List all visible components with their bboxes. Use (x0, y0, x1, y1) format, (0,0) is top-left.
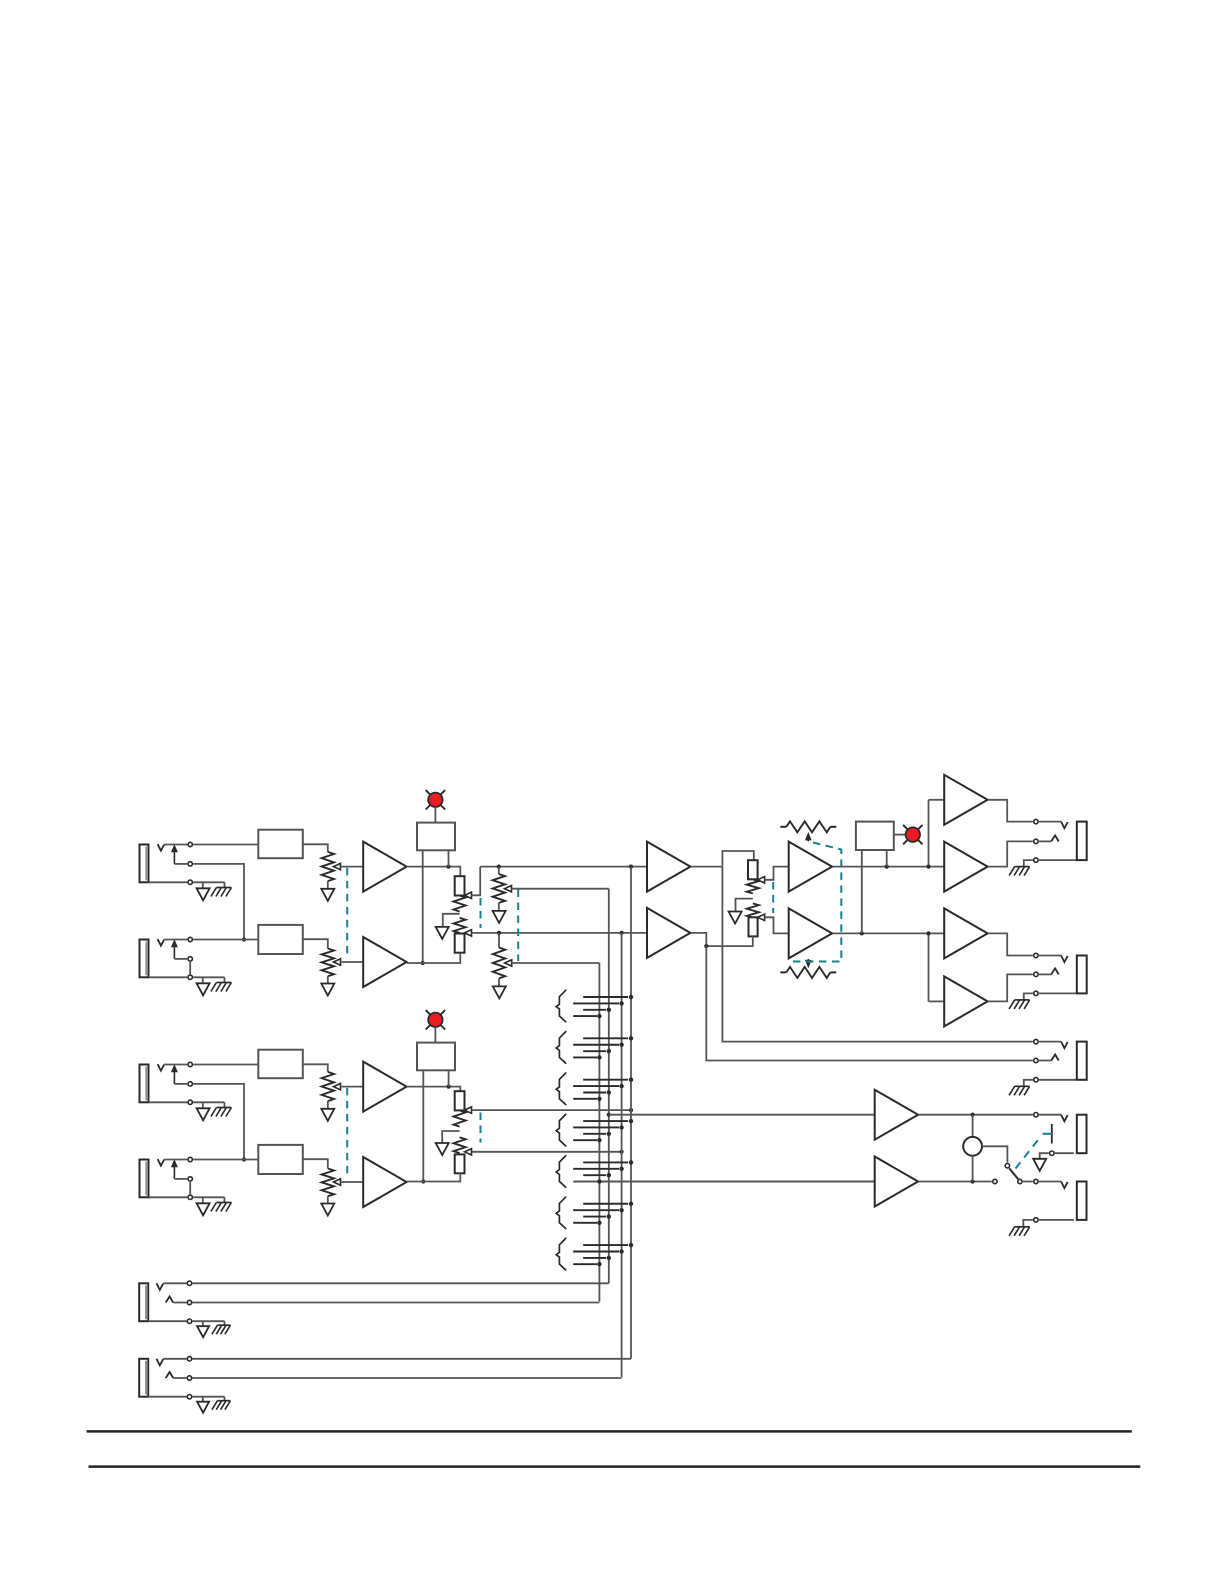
jack J1B sleeve wire (149, 976, 188, 978)
jack RECORD ring switch mark (1051, 1055, 1059, 1061)
node LED lead R on L row (446, 865, 450, 869)
jack BOOTH ring wire (1039, 973, 1051, 975)
node A6 input junction (926, 931, 930, 935)
jack MASTER body (1077, 822, 1087, 861)
op-amp A3A (summing L) (647, 842, 690, 892)
jack J1B signal ground (197, 983, 210, 995)
switch S1 lever (1009, 1168, 1018, 1179)
fader F2 center tap (442, 1131, 459, 1143)
node phones L feed (607, 1113, 611, 1117)
jack J2B ring-to-sleeve wire (189, 1182, 191, 1194)
op-amp A3B (summing R) (647, 908, 690, 958)
jack BOOTH chassis ground (1015, 999, 1030, 1001)
pot R2B wiper (505, 960, 512, 966)
selector wafer SW1 wiper (556, 990, 566, 1023)
wafer SW5 contact 3 wire (583, 1174, 606, 1176)
wire to amp A6B (929, 1000, 945, 1002)
wire A7A out (919, 1114, 1033, 1116)
wafer SW4 contact 1 wire (583, 1120, 628, 1122)
wafer SW3 contact 3 wire (583, 1092, 606, 1094)
jack MASTER sleeve wire (1039, 859, 1077, 861)
wafer SW7 contact 2 wire (573, 1251, 619, 1253)
node bus3 top junction (620, 931, 624, 935)
selector wafer SW5 wiper (556, 1155, 566, 1188)
potentiometer R1A (322, 852, 334, 881)
wafer SW6 contact 3 wire (583, 1216, 606, 1218)
footer rule 2 (89, 1465, 1141, 1468)
preamp U1A (258, 830, 303, 859)
jack BOOTH tip contact (1034, 953, 1038, 957)
jack J2A ring wire (174, 1083, 187, 1085)
node cue pot L tap (497, 865, 501, 869)
jack RECORD tip switch mark (1061, 1042, 1068, 1049)
fader F1 bottom element (455, 934, 465, 953)
preamp U1B (258, 925, 303, 954)
jack AUX2 sleeve contact (187, 1395, 191, 1399)
jack AUX1 chassis ground (217, 1324, 230, 1326)
jack RECORD chassis ground (1015, 1085, 1030, 1087)
wire F1 wiper2 to summing amp B (472, 932, 647, 934)
cue pot R2B lead (498, 933, 500, 948)
jack J1B chassis lead (224, 977, 226, 982)
bus 4 (pgm2 L) (630, 867, 632, 1359)
node U3P lead L junction (860, 931, 864, 935)
jack J2A sleeve contact (188, 1100, 192, 1104)
jack AUX2 body (139, 1359, 148, 1397)
node phones level tap R (971, 1179, 975, 1183)
crossfader wiper 1 (758, 877, 765, 883)
node SW2-4 (597, 1055, 601, 1059)
jack MASTER chassis ground (1015, 866, 1030, 868)
node SW3-4 (597, 1097, 601, 1101)
peak detector U3P (856, 822, 894, 850)
jack J2A tip wire (164, 1064, 187, 1066)
jack AUX1 tip wire (163, 1282, 186, 1284)
jack J2B body (140, 1160, 149, 1198)
node SW6-1 (629, 1202, 633, 1206)
op-amp A6A (944, 908, 987, 958)
fader F2 bottom lead (407, 1173, 460, 1181)
jack PHONES1 ground wire (1040, 1153, 1049, 1159)
crossfader center tap (736, 899, 753, 912)
ground at F1 center (436, 927, 449, 939)
wafer SW1 contact 4 wire (573, 1015, 597, 1017)
jack PHONES1 tip wire (1039, 1114, 1061, 1116)
jack J1B normalling switch arrow (173, 947, 175, 959)
jack BOOTH ring switch mark (1051, 968, 1059, 974)
jack J1B ring-to-sleeve wire (189, 962, 191, 974)
wire A4A out (833, 866, 944, 868)
op-amp A1B (363, 937, 406, 987)
jack J1A sleeve wire (149, 881, 188, 883)
switch S1 throw B contact (1018, 1179, 1022, 1183)
jack AUX2 ring bus wire (193, 1377, 622, 1379)
wire U2B out (303, 1159, 328, 1168)
jack PHONES1 sleeve contact (1050, 1151, 1054, 1155)
selector wafer SW7 wiper (556, 1238, 566, 1271)
ground at F2 center (436, 1143, 449, 1155)
op-amp A2B (363, 1157, 406, 1207)
jack PHONES2 sleeve wire (1039, 1219, 1074, 1221)
trim arrow A4B (807, 959, 809, 961)
node SW6-4 (597, 1221, 601, 1225)
trim gang dashes (790, 843, 841, 962)
jack J2B tip contact mark (158, 1159, 165, 1166)
jack AUX2 ground lead (202, 1397, 204, 1402)
wire A2A out to fader top (407, 1087, 460, 1092)
jack J1A normalling switch arrow (173, 852, 175, 864)
jack PHONES2 chassis ground (1015, 1226, 1030, 1228)
wafer SW5 contact 4 wire (to phones R) (573, 1181, 875, 1183)
jack J1B ground lead (202, 977, 204, 983)
ground below R2B (321, 1204, 334, 1216)
jack J1A signal ground (197, 888, 210, 900)
fader F2 wiper 1 (465, 1107, 472, 1113)
LED D3 (903, 825, 922, 844)
jack AUX1 tip switch mark (157, 1283, 164, 1290)
potentiometer R2B (322, 1169, 334, 1197)
jack PHONES2 tip switch mark (1061, 1182, 1068, 1189)
jack AUX1 body (139, 1283, 148, 1321)
jack J2B ring wire (174, 1178, 187, 1180)
jack PHONES1 tip switch mark (1061, 1115, 1068, 1122)
wire A6A input riser (928, 933, 930, 1001)
node LED lead L on R row (421, 961, 425, 965)
jack PHONES2 chassis wire (1023, 1220, 1033, 1227)
node SW7-3 (607, 1256, 611, 1260)
wire R1A wiper to amp (341, 866, 364, 868)
wire R2B wiper to bus1 (512, 962, 600, 964)
node phones level tap L (971, 1113, 975, 1117)
crossfader bottom element (749, 917, 758, 936)
node U3P lead R junction (885, 865, 889, 869)
wire xfader wiper2 to program amp R (765, 917, 789, 933)
jack J2B sleeve contact (188, 1195, 192, 1199)
jack MASTER tip contact (1034, 819, 1038, 823)
wire A7B out (919, 1181, 992, 1183)
LED D1 lead (434, 807, 436, 823)
jack J2A signal ground (197, 1108, 210, 1120)
jack AUX2 sleeve wire (148, 1396, 186, 1398)
op-amp A4B (program R) (789, 908, 832, 958)
wire J2B tip to U2B (193, 1159, 258, 1161)
jack BOOTH tip wire (1039, 955, 1061, 957)
node LED2 lead R junction (447, 1085, 451, 1089)
jack J2B ring contact (188, 1177, 192, 1181)
node SW2-1 (629, 1036, 633, 1040)
jack J1B tip contact mark (158, 939, 165, 946)
jack J2B sleeve wire (149, 1196, 188, 1198)
node SW4-2 (619, 1125, 623, 1129)
fader F1 bottom lead (407, 953, 460, 963)
jack J2A chassis lead (224, 1102, 226, 1107)
wire A4B out (833, 932, 944, 934)
jack MASTER ring contact (1034, 839, 1038, 843)
node SW1-4 (597, 1014, 601, 1018)
node SW6-3 (607, 1214, 611, 1218)
wire J1A tip to U1A (193, 844, 258, 846)
wire record feed R (706, 946, 1033, 1060)
jack J1B body (140, 940, 149, 978)
op-amp A5B (944, 842, 987, 892)
wire R1B wiper to amp (341, 961, 364, 963)
jack AUX1 ring wire (173, 1302, 186, 1304)
jack RECORD ring contact (1034, 1058, 1038, 1062)
node SW5-2 (619, 1167, 623, 1171)
trim arrow A4A (807, 840, 809, 842)
wafer SW2 contact 1 wire (583, 1037, 628, 1039)
wafer SW3 contact 4 wire (573, 1098, 597, 1100)
potentiometer R2A (322, 1072, 334, 1101)
node SW2-2 (619, 1043, 623, 1047)
wire VR to switch pole (982, 1146, 1007, 1162)
wafer SW4 contact 2 wire (573, 1126, 619, 1128)
wire J2A tip to U2A (193, 1064, 258, 1066)
pot R2A wiper (505, 886, 512, 892)
ground below R1A (321, 889, 334, 901)
node F2 wiper1 bus4 junction (629, 1108, 633, 1112)
wafer SW2 contact 2 wire (573, 1044, 619, 1046)
preamp U2B (258, 1145, 303, 1174)
bus 2 (cue R) (608, 889, 610, 1284)
pot R2A ground lead (498, 903, 500, 911)
crossfader bottom lead (706, 936, 753, 946)
fader F1 center tap to ground (443, 914, 460, 927)
jack J2A chassis ground (216, 1107, 231, 1109)
trim resistor R4A (780, 826, 786, 828)
wafer SW7 contact 4 wire (573, 1263, 597, 1265)
node SW7-4 (597, 1262, 601, 1266)
peak box U2P right lead (448, 1070, 450, 1086)
wafer SW1 contact 3 wire (583, 1009, 606, 1011)
wafer SW6 contact 1 wire (583, 1203, 628, 1205)
jack J1A tip contact mark (158, 844, 165, 851)
jack AUX1 signal ground (197, 1326, 209, 1337)
jack J1B tip wire (164, 939, 187, 941)
wafer SW5 contact 1 wire (583, 1161, 628, 1163)
jack PHONES1 tip contact (1034, 1113, 1038, 1117)
jack J2B chassis lead (224, 1197, 226, 1202)
crossfader wiper 2 (758, 914, 765, 920)
node SW5-4 (597, 1179, 601, 1183)
jack J1B ring wire (174, 958, 187, 960)
wire J1B tip to U1B (193, 939, 258, 941)
switch S1 throw A contact (993, 1179, 997, 1183)
fader F1 gang dashes (480, 898, 482, 928)
jack J2A ring link wire (193, 1084, 244, 1160)
node SW4-1 (629, 1119, 633, 1123)
op-amp A4A (program L) (789, 842, 832, 892)
wire throw B to phones jack (1023, 1181, 1033, 1183)
wafer SW1 contact 2 wire (573, 1002, 619, 1004)
pot R2A ground lead (327, 1101, 329, 1109)
jack AUX1 tip bus wire (193, 1282, 609, 1284)
pot R2B wiper (334, 1179, 341, 1185)
wafer SW7 contact 1 wire (583, 1244, 628, 1246)
jack J1A body (140, 845, 149, 883)
wafer SW4 contact 4 wire (573, 1139, 597, 1141)
node SW7-1 (629, 1243, 633, 1247)
bus 3 (pgm2 R) (621, 933, 623, 1377)
jack PHONES2 body (1077, 1182, 1087, 1220)
wire R2A wiper to amp (341, 1086, 364, 1088)
jack AUX2 chassis lead (224, 1397, 226, 1401)
pot R1A wiper (334, 863, 341, 869)
jack RECORD sleeve wire (1039, 1079, 1077, 1081)
jack J1A chassis lead (224, 882, 226, 887)
op-amp A5A (944, 775, 987, 825)
wire xfader wiper1 to program amp L (765, 867, 789, 880)
node bus4 top junction (629, 865, 633, 869)
wire to booth amp A5A (929, 799, 945, 801)
jack J1B tip contact (188, 937, 192, 941)
node SW5-3 (607, 1173, 611, 1177)
wire U1B out (303, 939, 328, 948)
jack MASTER ring switch mark (1051, 835, 1059, 841)
jack RECORD tip wire (1039, 1041, 1061, 1043)
node SW1-2 (619, 1001, 623, 1005)
fader F1 lower track (454, 918, 466, 933)
pot R1B ground lead (327, 976, 329, 983)
peak box U1P right lead (448, 850, 450, 866)
peak detector U1P (417, 823, 455, 851)
jack AUX2 ring contact (187, 1376, 191, 1380)
switch S1 pole contact (1005, 1164, 1009, 1168)
peak box U3P left lead (861, 850, 863, 933)
node cue pot R tap (497, 931, 501, 935)
jack AUX1 ring switch mark (166, 1297, 174, 1303)
jack BOOTH chassis wire (1024, 993, 1033, 1000)
jack AUX1 ring bus wire (193, 1302, 600, 1304)
wafer SW7 contact 3 wire (583, 1257, 606, 1259)
node A5 input junction (926, 865, 930, 869)
node SW4-4 (597, 1138, 601, 1142)
crossfader gang dashes (772, 882, 774, 913)
jack J1A tip wire (164, 844, 187, 846)
jack AUX1 tip contact (187, 1281, 191, 1285)
wire to crossfader top (722, 851, 753, 867)
pot R2B ground lead (327, 1196, 329, 1203)
fader F1 top element (455, 876, 465, 895)
op-amp A7A (phones L) (875, 1090, 918, 1140)
wire F2 wiper1 to bus4 (472, 1109, 632, 1111)
jack J2A tip contact (188, 1062, 192, 1066)
wire A6A out (988, 933, 1033, 955)
jack PHONES2 sleeve contact (1034, 1218, 1038, 1222)
fader F2 lower track (454, 1137, 466, 1153)
preamp U2A (258, 1050, 303, 1079)
jack BOOTH body (1077, 956, 1087, 994)
jack AUX1 chassis lead (224, 1321, 226, 1325)
fader F2 top element (455, 1091, 465, 1110)
LED D2 lead (434, 1027, 436, 1043)
jack BOOTH sleeve wire (1039, 992, 1077, 994)
fader F1 wiper 1 (465, 892, 472, 898)
crossfader top element (748, 860, 758, 879)
wafer SW4 contact 3 wire (583, 1133, 606, 1135)
jack MASTER tip wire (1039, 821, 1061, 823)
wire record feed L (722, 867, 1032, 1042)
jack PHONES1 body (1077, 1115, 1087, 1154)
jack AUX2 tip wire (163, 1358, 186, 1360)
pot R2B ground lead (498, 978, 500, 986)
node LED2 lead L junction (421, 1179, 425, 1183)
jack RECORD tip contact (1034, 1039, 1038, 1043)
jack AUX2 tip contact (187, 1357, 191, 1361)
wafer SW2 contact 3 wire (583, 1050, 606, 1052)
jack J1A ground lead (202, 882, 204, 888)
wire L row to summing amp (480, 866, 647, 868)
wire F2 wiper2 to bus3 (472, 1151, 622, 1153)
peak detector U2P (417, 1043, 455, 1071)
wafer SW3 contact 2 wire (573, 1085, 619, 1087)
jack J2A ground lead (202, 1102, 204, 1108)
jack J1A ring contact (188, 862, 192, 866)
pot R1B wiper (334, 959, 341, 965)
wire U1A out (303, 844, 328, 852)
node SW3-3 (607, 1090, 611, 1094)
jack J2A sleeve wire (149, 1101, 188, 1103)
peak box U3P right lead (886, 850, 888, 867)
wire A3B out (691, 933, 706, 946)
LED D3 lead (894, 834, 906, 836)
wire A5A out (988, 800, 1033, 822)
fader F2 wiper 2 (465, 1149, 472, 1155)
jack AUX2 chassis ground (217, 1400, 230, 1402)
wafer SW3 contact 1 wire (583, 1079, 628, 1081)
potentiometer R2B (cue R) (493, 948, 505, 979)
node J2B tip junction (242, 1157, 246, 1161)
fader F1 upper track (454, 896, 466, 912)
jack J2B tip wire (164, 1159, 187, 1161)
node SW7-2 (619, 1249, 623, 1253)
LED D2 (426, 1010, 445, 1029)
ground at crossfader center (729, 912, 742, 924)
crossfader lower track (747, 903, 759, 917)
gang dashes R1A-R1B (346, 868, 348, 956)
node F2 wiper2 bus3 junction (620, 1150, 624, 1154)
op-amp A7B (phones R) (875, 1157, 918, 1207)
jack AUX2 tip switch mark (157, 1359, 164, 1366)
node SW6-2 (619, 1208, 623, 1212)
jack PHONES2 tip contact (1034, 1179, 1038, 1183)
jack AUX1 sleeve wire (148, 1320, 186, 1322)
wire A1A out to fader top (407, 867, 460, 877)
jack MASTER chassis wire (1024, 860, 1033, 867)
jack J2B chassis ground (216, 1202, 231, 1204)
ground below R2B (493, 986, 506, 998)
jack J1A ring wire (174, 863, 187, 865)
jack AUX2 ring switch mark (166, 1372, 174, 1378)
jack MASTER sleeve contact (1034, 858, 1038, 862)
wire R2B wiper to amp (341, 1181, 364, 1183)
wafer SW6 contact 2 wire (573, 1209, 619, 1211)
selector wafer SW4 wiper (556, 1114, 566, 1147)
jack J2A tip contact mark (158, 1064, 165, 1071)
jack PHONES1 sleeve wire (1055, 1152, 1074, 1154)
jack BOOTH sleeve contact (1034, 991, 1038, 995)
jack RECORD sleeve contact (1034, 1078, 1038, 1082)
op-amp A1A (363, 842, 406, 892)
jack RECORD ring wire (1039, 1060, 1051, 1062)
node SW3-1 (629, 1078, 633, 1082)
wire F1 wiper1 up to L bus row (472, 867, 481, 896)
ground below R2A (493, 911, 506, 923)
wafer SW2 contact 4 wire (573, 1056, 597, 1058)
jack PHONES2 tip wire (1039, 1181, 1061, 1183)
wire R2A wiper to bus2 (512, 888, 609, 890)
fader F2 gang dashes (480, 1113, 482, 1143)
